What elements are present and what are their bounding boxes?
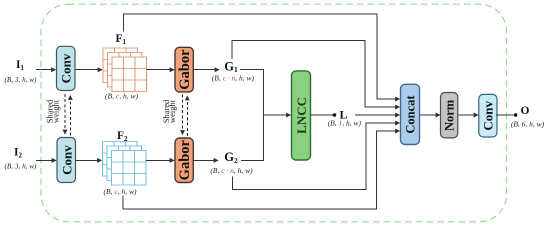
- svg-text:(B, c · n, h, w): (B, c · n, h, w): [212, 74, 255, 83]
- wire Norm to Conv: [458, 114, 478, 116]
- svg-text:Gabor: Gabor: [177, 49, 193, 90]
- svg-text:F1: F1: [116, 33, 127, 46]
- svg-text:G1: G1: [224, 59, 238, 74]
- svg-text:(B, 6, h, w): (B, 6, h, w): [511, 120, 545, 129]
- conv block Conv (row 2): [57, 138, 76, 183]
- svg-text:(B, 1, h, w): (B, 1, h, w): [328, 118, 362, 127]
- wire Conv to O: [496, 114, 514, 116]
- svg-text:O: O: [521, 105, 530, 117]
- lncc block LNCC: [292, 71, 311, 160]
- svg-text:weight: weight: [51, 99, 61, 123]
- wire G2 to LNCC junction: [241, 115, 264, 160]
- svg-text:(B, 3, h, w): (B, 3, h, w): [5, 163, 38, 171]
- node L dot: [333, 113, 337, 117]
- wire G1 to LNCC junction: [240, 70, 264, 115]
- wire I2 to Conv: [36, 159, 56, 161]
- gabor block Gabor (row 1): [175, 47, 193, 92]
- svg-text:Gabor: Gabor: [177, 139, 193, 180]
- dashed arrow gabor weight sharing (down): [182, 95, 184, 135]
- svg-text:Conv: Conv: [481, 100, 496, 130]
- frame: dashed green rounded border: [41, 4, 507, 222]
- wire G1 to Concat: [232, 40, 400, 107]
- svg-text:Concat: Concat: [404, 95, 418, 134]
- conv block Conv (row 1): [57, 46, 76, 90]
- svg-text:Conv: Conv: [59, 145, 74, 175]
- wire Gabor to G1: [193, 69, 219, 71]
- concat block Concat: [401, 84, 420, 144]
- svg-text:G2: G2: [224, 150, 238, 165]
- conv block Conv (output): [479, 94, 497, 137]
- wire G2 to Concat: [233, 123, 400, 190]
- wire junction to LNCC: [264, 114, 291, 116]
- svg-text:(B, c, h, w): (B, c, h, w): [104, 187, 137, 196]
- wire F1 to Gabor: [147, 69, 175, 71]
- wire Conv to F1: [75, 69, 102, 71]
- svg-text:LNCC: LNCC: [294, 97, 309, 134]
- dashed arrow conv weight sharing (down): [64, 94, 66, 134]
- wire F2 to Gabor: [146, 159, 174, 161]
- feature map stack F2: [103, 142, 147, 186]
- svg-text:Conv: Conv: [59, 53, 74, 83]
- feature map stack F1: [103, 48, 147, 92]
- svg-text:I2: I2: [14, 146, 22, 159]
- wire F1 to Concat (top): [124, 14, 400, 99]
- wire F2 to Concat (bottom): [123, 131, 399, 209]
- svg-text:(B, 3, h, w): (B, 3, h, w): [5, 76, 38, 84]
- norm block Norm: [441, 93, 458, 138]
- svg-text:I1: I1: [16, 59, 24, 72]
- wire Conv to F2: [76, 159, 102, 161]
- svg-text:F2: F2: [117, 130, 128, 143]
- wire L to Concat: [355, 114, 400, 116]
- node O dot: [514, 113, 518, 117]
- dashed arrow gabor weight sharing (up): [186, 96, 188, 136]
- svg-text:(B, c · n, h, w): (B, c · n, h, w): [210, 166, 253, 175]
- wire I1 to Conv: [36, 69, 56, 71]
- wire Gabor to G2: [193, 159, 218, 161]
- svg-text:(B, c, h, w): (B, c, h, w): [105, 91, 138, 100]
- wire Concat to Norm: [420, 114, 441, 116]
- svg-text:Norm: Norm: [443, 99, 457, 131]
- dashed arrow conv weight sharing (up): [69, 96, 71, 136]
- wire LNCC to L: [311, 114, 334, 116]
- gabor block Gabor (row 2): [175, 138, 193, 183]
- svg-text:weight: weight: [167, 99, 177, 123]
